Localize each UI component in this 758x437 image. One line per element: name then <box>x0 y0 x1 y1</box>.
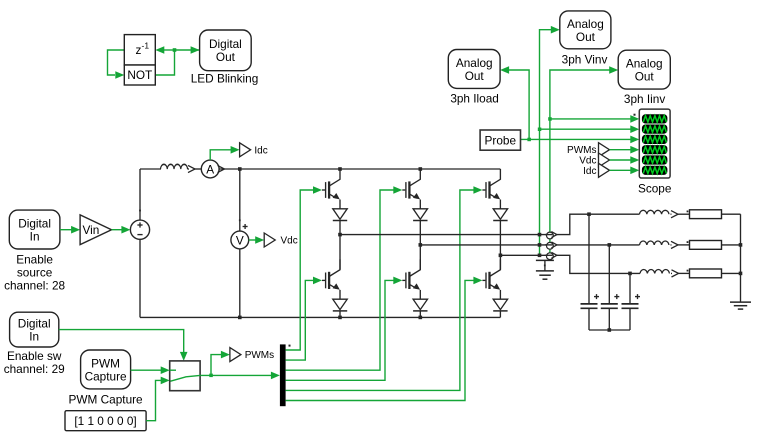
wire: right bus vertical <box>740 214 742 302</box>
svg-text:[1 1 0 0 0 0]: [1 1 0 0 0 0] <box>74 414 136 428</box>
svg-text:channel: 28: channel: 28 <box>4 279 65 293</box>
logic block NOT <box>124 65 155 85</box>
node: leg2 bottom junction <box>419 316 423 320</box>
diode D1 <box>333 209 347 221</box>
wire: bottom DC rail <box>140 316 500 318</box>
inductor L2 (row1) <box>640 210 669 214</box>
transistor T6 (leg3 bottom IGBT) <box>482 259 500 299</box>
node: PWMs tap junction <box>209 374 213 378</box>
capacitor C2 <box>601 294 620 308</box>
wire: scope input 1 from Iinv vertical <box>550 118 631 120</box>
ground: measurement star point <box>536 260 554 279</box>
node: leg2 top rail junction <box>419 167 423 171</box>
wire: switch output to mux <box>200 374 271 376</box>
probe tag PWMs <box>230 348 241 362</box>
node: phase b voltage tap <box>538 243 542 247</box>
ammeter Ia <box>545 232 557 239</box>
wire: D4 to bottom rail <box>339 311 341 318</box>
wire: D6 to bottom rail <box>499 311 501 318</box>
wire: top DC rail to inductor <box>140 168 161 170</box>
wire: Vdc signal to probe tag <box>249 239 256 241</box>
svg-text:Analog: Analog <box>626 57 663 71</box>
wire: scope input 2 from Vinv vertical <box>540 128 631 130</box>
block Analog Out (3ph Iinv) <box>618 50 670 89</box>
block Digital In (enable sw) <box>10 312 59 347</box>
block PWM Capture <box>81 350 131 389</box>
switch block S1 <box>170 361 200 391</box>
wire: phase a sensor to load row 1 <box>557 214 640 234</box>
svg-text:Digital: Digital <box>18 317 51 331</box>
node b: leg2 midpoint <box>419 243 423 247</box>
node: leg1 top rail junction <box>338 167 342 171</box>
wire: PWM Capture to switch input 1 <box>131 369 162 371</box>
svg-text:Out: Out <box>216 50 236 64</box>
svg-text:PWMs: PWMs <box>245 350 274 361</box>
label anchor dot near scope <box>634 114 636 116</box>
node: scope in2 junction <box>538 128 542 132</box>
probe tag Idc <box>240 143 251 157</box>
svg-text:Analog: Analog <box>567 17 604 31</box>
label anchor dot near demux <box>289 345 291 347</box>
transistor T5 (leg2 bottom IGBT) <box>402 259 420 299</box>
block Probe <box>480 130 520 150</box>
arrowhead into NOT input <box>115 71 124 79</box>
constant block [1 1 0 0 0 0] <box>65 411 146 431</box>
svg-text:Digital: Digital <box>18 217 51 231</box>
node: feedback junction <box>173 48 177 52</box>
wire: phase c from leg3 to sensor <box>500 254 546 256</box>
probe tag Vdc <box>264 233 275 247</box>
resistor R1 (row1) <box>690 210 722 219</box>
wire: row3 tap down to capacitor C3 <box>629 273 631 303</box>
wire: Vin to controlled voltage source <box>112 229 123 231</box>
wire: gate signal g2 to T2 <box>286 190 394 370</box>
diode D2 <box>413 209 427 221</box>
wire: source + up to DC bus <box>139 169 141 220</box>
diode D5 <box>413 299 427 311</box>
wire: R2 to right bus <box>722 244 741 246</box>
resistor R2 (row2) <box>690 241 722 250</box>
svg-text:PWM Capture: PWM Capture <box>69 393 144 407</box>
wire: enable sw to switch control <box>59 330 184 353</box>
wire: top DC rail from ammeter to bridge <box>219 168 500 170</box>
wire: D1 to phase node a <box>339 221 341 235</box>
arrowhead into z-1 right input (pointing left) <box>155 46 164 54</box>
svg-text:Enable sw: Enable sw <box>7 349 62 363</box>
block Digital Out (LED) <box>200 30 252 71</box>
node: voltmeter bottom junction <box>238 316 242 320</box>
node: phase a voltage tap <box>538 233 542 237</box>
inductor L4 (row3) <box>640 270 669 274</box>
svg-text:3ph Iinv: 3ph Iinv <box>624 92 665 106</box>
node: probe line junction <box>527 138 531 142</box>
ground: load star ground <box>730 302 751 309</box>
wire: Iinv measurement vertical to Analog Out 3ph Iinv <box>550 70 610 255</box>
node: Vdc tap on top rail <box>238 167 242 171</box>
diode D3 <box>493 209 507 221</box>
arrowhead into Digital Out <box>191 46 200 54</box>
svg-text:In: In <box>29 330 39 344</box>
wire: leg1 mid to lower IGBT <box>339 235 341 270</box>
wire: inductor to ammeter <box>188 168 190 170</box>
svg-text:Idc: Idc <box>254 145 267 156</box>
gain block Vin <box>80 215 111 245</box>
node: row1 capacitor tap <box>587 212 591 216</box>
wire: phase b sensor to load row 2 <box>557 244 640 246</box>
svg-text:Capture: Capture <box>85 370 127 384</box>
wire: R1 to right bus <box>722 213 741 215</box>
svg-text:Analog: Analog <box>456 56 493 70</box>
node: bus row2 junction <box>739 243 743 247</box>
wire: phase c sensor to load row 3 <box>557 255 641 273</box>
wire: top rail down to voltmeter <box>239 169 241 231</box>
svg-text:Scope: Scope <box>638 182 672 196</box>
node: phase c voltage tap <box>538 254 542 258</box>
wire: D2 to phase node b <box>419 221 421 245</box>
transistor T4 (leg1 bottom IGBT) <box>322 259 340 299</box>
wire: probe output to scope input 3 <box>521 138 631 140</box>
node: row3 capacitor tap <box>628 272 632 276</box>
svg-text:channel: 29: channel: 29 <box>4 362 65 376</box>
transistor T2 (leg2 top IGBT) <box>402 169 420 209</box>
svg-text:NOT: NOT <box>127 68 152 82</box>
svg-text:-1: -1 <box>142 41 150 51</box>
svg-text:PWM: PWM <box>91 357 120 371</box>
wire: Vinv measurement vertical to Analog Out 3ph Vinv <box>540 30 552 256</box>
wire: leg3 mid to lower IGBT <box>499 255 501 269</box>
wire: voltmeter down to bottom rail <box>239 249 241 318</box>
svg-text:LED Blinking: LED Blinking <box>191 72 259 86</box>
wire: tap up to PWMs tag <box>211 355 221 376</box>
wire: capacitor common rail <box>589 329 630 331</box>
wire: leg2 mid to lower IGBT <box>419 245 421 270</box>
svg-text:A: A <box>206 162 214 176</box>
wire: constant to switch input 2 <box>146 380 161 420</box>
svg-text:Idc: Idc <box>583 166 596 177</box>
node: scope in1 junction <box>548 117 552 121</box>
ammeter A1 <box>201 160 219 178</box>
wire: Idc measurement to probe tag <box>210 150 231 160</box>
demux bar M1 <box>280 344 286 406</box>
wire: row2 tap down to capacitor C2 <box>608 245 610 303</box>
wire: junction to z-1 right input <box>163 49 175 51</box>
wire: NOT output feedback up to junction <box>155 50 199 75</box>
scope SC1 <box>639 109 670 178</box>
wire: Iload vertical from probe line to Analog Out 3ph Iload <box>509 70 530 139</box>
svg-text:Vdc: Vdc <box>281 236 298 247</box>
svg-text:Enable: Enable <box>16 253 53 267</box>
block Digital In (enable source) <box>9 210 60 249</box>
wire: R3 to right bus <box>722 272 741 274</box>
node: row2 capacitor tap <box>608 243 612 247</box>
transistor T3 (leg3 top IGBT) <box>482 169 500 209</box>
ammeter Ic <box>545 252 557 259</box>
svg-text:3ph Vinv: 3ph Vinv <box>562 53 608 67</box>
diode D4 <box>333 299 347 311</box>
capacitor C1 <box>581 294 600 308</box>
svg-text:V: V <box>236 233 244 247</box>
wire: row1 tap down to capacitor C1 <box>588 214 590 303</box>
node c: leg3 midpoint <box>499 254 503 258</box>
terminal tick above voltmeter <box>239 219 241 221</box>
node: leg1 bottom junction <box>338 316 342 320</box>
svg-text:Out: Out <box>635 70 655 84</box>
transistor T1 (leg1 top IGBT) <box>322 169 340 209</box>
svg-text:3ph Iload: 3ph Iload <box>450 92 499 106</box>
node: bus row3 junction <box>739 272 743 276</box>
controlled voltage source V1 <box>130 220 149 239</box>
wire: D5 to bottom rail <box>419 311 421 318</box>
delay block z^-1 <box>124 35 155 65</box>
node: cap rail junction <box>608 328 612 332</box>
inductor L3 (row2) <box>640 241 669 245</box>
svg-text:Out: Out <box>465 69 485 83</box>
resistor R3 (row3) <box>690 269 722 278</box>
ammeter Ib <box>545 242 557 249</box>
wire: gate signal g4 to T4 <box>286 280 314 360</box>
wire: Digital In to Vin gain <box>60 229 72 231</box>
svg-text:Out: Out <box>576 30 596 44</box>
wire: source - down to DC return <box>139 239 141 317</box>
wire: phase a from leg1 to sensor <box>340 234 547 236</box>
terminal tick above source <box>139 210 141 212</box>
svg-text:Probe: Probe <box>485 134 517 148</box>
wire: gate signal g3 to T3 <box>286 190 474 390</box>
capacitor C3 <box>622 294 641 308</box>
wire: C3 to cap rail <box>629 308 631 330</box>
svg-text:Vin: Vin <box>83 223 100 237</box>
block Analog Out (3ph Iload) <box>448 50 500 89</box>
wire: C2 to cap rail <box>608 308 610 330</box>
inductor L1 <box>161 164 188 169</box>
wire: gate signal g6 to T6 <box>286 280 474 400</box>
svg-text:In: In <box>30 230 40 244</box>
wire: C1 to cap rail <box>588 308 590 330</box>
svg-text:source: source <box>17 266 53 280</box>
wire: gate signal g1 to T1 <box>286 190 314 350</box>
block Analog Out (3ph Vinv) <box>560 11 611 49</box>
voltmeter V (Vdc) with + mark <box>231 224 249 249</box>
wire: gate signal g5 to T5 <box>286 280 394 380</box>
wire: phase b from leg2 to sensor <box>420 244 546 246</box>
diode D6 <box>493 299 507 311</box>
svg-text:Digital: Digital <box>209 37 242 51</box>
wire: feedback from z-1 output left down into NOT input <box>108 50 125 75</box>
node a: leg1 midpoint <box>338 233 342 237</box>
wire: D3 to phase node c <box>499 221 501 256</box>
